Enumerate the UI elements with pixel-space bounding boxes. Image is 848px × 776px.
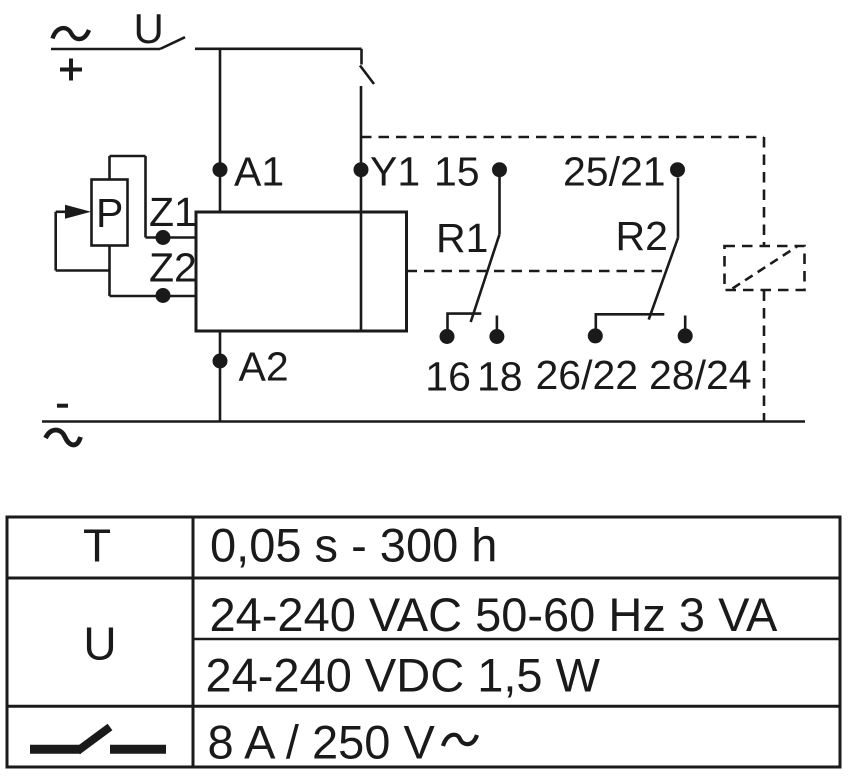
wire: Z2 horizontal bbox=[110, 295, 197, 298]
svg-text:Z1: Z1 bbox=[149, 189, 197, 235]
contact symbol right bar bbox=[110, 745, 166, 754]
wire: R1 common lead from node 15 bbox=[498, 177, 501, 234]
svg-text:A1: A1 bbox=[234, 149, 284, 195]
svg-text:18: 18 bbox=[477, 354, 523, 400]
terminal 16 L-bar bbox=[448, 314, 482, 330]
dashed output contact box bbox=[725, 246, 805, 290]
contact R2 blade bbox=[649, 238, 678, 320]
wire: bottom supply rail bbox=[42, 420, 805, 423]
node 15 bbox=[492, 162, 507, 177]
svg-text:24-240 VDC 1,5 W: 24-240 VDC 1,5 W bbox=[206, 649, 601, 702]
minus polarity symbol bbox=[57, 404, 68, 408]
contact R1 blade bbox=[471, 234, 500, 322]
node 16 bbox=[440, 329, 455, 344]
svg-text:Z2: Z2 bbox=[149, 245, 197, 291]
contact symbol blade bbox=[78, 727, 111, 751]
wire: A2 vertical bbox=[219, 331, 222, 421]
node 26/22 bbox=[588, 328, 603, 343]
wire: P bottom lead bbox=[108, 246, 111, 297]
spec table row line U/contact bbox=[7, 705, 840, 708]
spec table row line T/U bbox=[7, 577, 840, 580]
terminal 18 stub bbox=[496, 316, 499, 331]
switch U blade bbox=[160, 37, 185, 49]
timer relay body box bbox=[196, 212, 407, 331]
svg-text:15: 15 bbox=[434, 149, 480, 195]
dashed control link: mid horizontal from relay body bbox=[407, 270, 664, 273]
svg-text:24-240 VAC 50-60 Hz 3 VA: 24-240 VAC 50-60 Hz 3 VA bbox=[210, 588, 778, 641]
node 18 bbox=[489, 329, 504, 344]
wiper arrowhead bbox=[65, 205, 91, 219]
svg-text:28/24: 28/24 bbox=[649, 352, 752, 398]
terminal 26/22 L-bar bbox=[596, 314, 665, 329]
wire: R2 common lead from node 25/21 bbox=[677, 178, 680, 238]
node A1 bbox=[213, 162, 228, 177]
plus polarity symbol bbox=[60, 59, 82, 81]
svg-text:Y1: Y1 bbox=[370, 149, 420, 195]
wire: Z1 horizontal bbox=[146, 236, 197, 239]
node Z1 bbox=[156, 230, 171, 245]
node 25/21 bbox=[670, 162, 685, 177]
wire: Y1 branch vertical bbox=[360, 86, 363, 212]
wire: Y1 corner stub bbox=[360, 49, 363, 65]
node Y1 bbox=[354, 162, 369, 177]
svg-text:A2: A2 bbox=[239, 344, 289, 390]
terminal 28/24 stub bbox=[684, 316, 687, 330]
node A2 bbox=[213, 354, 228, 369]
svg-text:16: 16 bbox=[425, 354, 471, 400]
wire: P right vertical bbox=[144, 156, 147, 238]
svg-text:P: P bbox=[96, 190, 123, 236]
node Z2 bbox=[156, 288, 171, 303]
wire: wiper left vertical bbox=[54, 212, 57, 271]
AC source symbol (~) bottom-left bbox=[46, 430, 81, 445]
contact symbol left bar bbox=[30, 745, 81, 754]
spec table row line VAC/VDC bbox=[193, 638, 840, 641]
wire: wiper bottom horizontal bbox=[56, 269, 110, 272]
svg-text:U: U bbox=[134, 5, 164, 52]
switch Y1 blade bbox=[360, 66, 374, 85]
node 28/24 bbox=[678, 328, 693, 343]
wire: P top horizontal bbox=[110, 155, 146, 158]
dashed control link: top horizontal bbox=[361, 136, 764, 139]
wire: supply rail left segment bbox=[51, 48, 160, 51]
dashed control link: right vertical lower bbox=[763, 291, 766, 422]
svg-text:26/22: 26/22 bbox=[536, 352, 639, 398]
dashed control link: right vertical upper bbox=[763, 137, 766, 246]
AC source symbol (~) top-left bbox=[53, 28, 90, 39]
svg-text:R2: R2 bbox=[616, 213, 668, 259]
timer relay body divider bbox=[360, 212, 363, 331]
svg-text:25/21: 25/21 bbox=[563, 149, 666, 195]
svg-text:8 A / 250 V: 8 A / 250 V bbox=[208, 716, 436, 769]
svg-text:U: U bbox=[83, 617, 116, 669]
spec table column divider bbox=[192, 517, 195, 767]
svg-text:R1: R1 bbox=[436, 215, 488, 261]
wire: wiper arrow shaft bbox=[56, 211, 70, 214]
svg-text:T: T bbox=[83, 520, 111, 572]
wire: A1 branch vertical bbox=[219, 49, 222, 212]
dashed output contact diagonal bbox=[733, 247, 798, 289]
AC symbol after 250 V bbox=[443, 735, 477, 746]
wire: supply rail right segment bbox=[195, 47, 362, 50]
potentiometer P box bbox=[92, 180, 128, 246]
svg-text:0,05 s - 300 h: 0,05 s - 300 h bbox=[210, 519, 497, 572]
wire: P top lead bbox=[108, 156, 111, 180]
spec table outer border bbox=[7, 517, 840, 767]
